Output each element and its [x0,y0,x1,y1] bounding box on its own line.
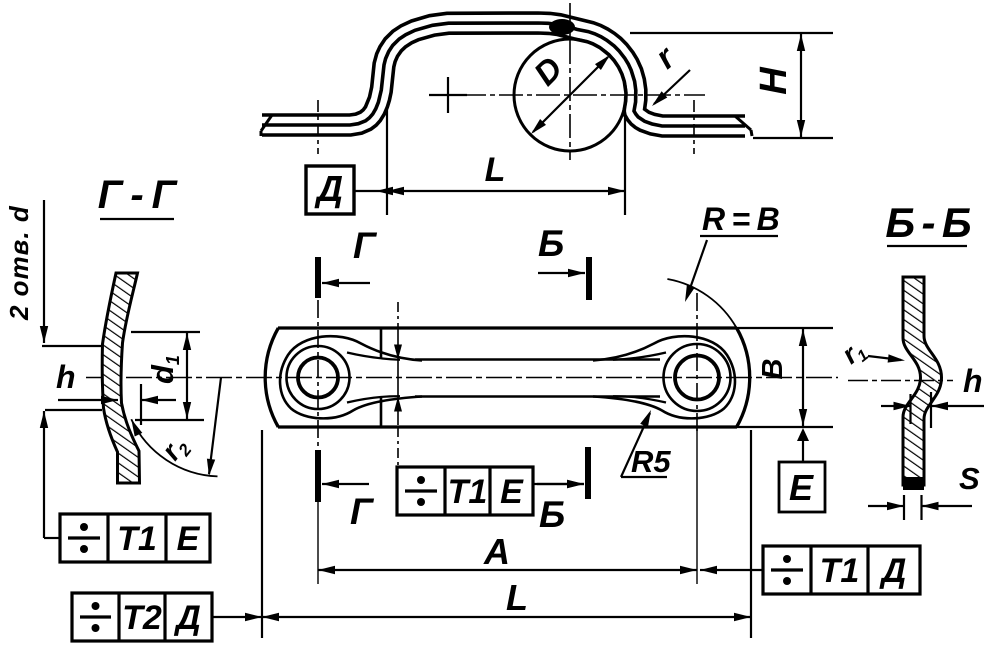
rib lines [415,358,660,361]
dimension A [318,569,697,571]
pipe center lines [569,3,571,160]
right hole vertical axis [696,293,698,432]
svg-text:Г: Г [353,225,378,266]
svg-text:А: А [483,531,510,572]
svg-text:Д: Д [314,168,343,209]
frame T2-D with leader [72,593,212,641]
plan view outline [278,326,737,329]
left eye: hole [298,358,338,398]
left hole vertical axis [317,300,319,450]
section G-G hatched profile [102,273,139,483]
datum box Д (top) [306,166,354,214]
radius r1 leader [868,356,901,360]
left eye: neck fragments [347,353,400,360]
hole axis marks on tabs [317,100,319,154]
section mark G top [315,257,321,298]
svg-text:h: h [963,363,983,399]
right eye: outer swoop [593,336,735,418]
hole d dimension [43,200,45,343]
frame T1-E (plan) [397,467,533,515]
left eye: ring [287,346,350,409]
svg-text:Г - Г: Г - Г [98,173,179,217]
radius r leader [654,70,690,104]
section mark G bottom [315,450,321,502]
left eye: outer swoop [280,336,422,418]
frame T1-D with leader [714,569,763,571]
svg-text:T2: T2 [122,599,162,637]
frame T1-E (G-G) [60,514,210,562]
dimension B (width) [737,327,833,329]
svg-text:h: h [56,359,76,395]
svg-text:L: L [485,151,506,189]
svg-text:Д: Д [173,599,201,637]
datum E triangle and box [797,428,809,441]
svg-text:T1: T1 [117,520,157,558]
radius r2 arc and leader [131,419,217,476]
svg-text:S: S [959,461,980,496]
svg-text:Г: Г [350,491,375,532]
section B-B hatched profile [903,277,942,485]
right eye: neck fragments [613,353,666,360]
svg-text:В: В [757,359,789,380]
svg-text:Е: Е [177,520,201,558]
svg-text:T1: T1 [448,473,488,511]
dimension d1 [131,331,200,333]
right eye: ring [664,344,731,411]
dimension L (plan) [261,430,263,638]
svg-text:Б: Б [539,494,565,535]
svg-text:R = В: R = В [702,201,780,237]
R=B extension arc [667,279,736,328]
strap left end face [261,115,272,131]
svg-text:H: H [753,66,795,95]
svg-text:Б - Б: Б - Б [885,199,971,246]
svg-text:Б: Б [538,223,564,264]
svg-text:Д: Д [879,552,907,590]
section mark B bottom [585,447,591,499]
center cross node [429,94,467,96]
right eye: hole [675,356,719,400]
svg-text:Е: Е [789,467,814,508]
svg-text:L: L [506,577,528,618]
top view: bent strap side elevation, 3 contour lines [262,13,745,116]
strap right end face [735,116,751,130]
dimension H [630,32,833,34]
rib width mini-dimension [380,329,383,359]
ink smudge where strap lines converge (scan artifact) [549,19,575,35]
section mark B top [586,257,592,300]
svg-text:Е: Е [500,473,524,511]
dimension D (diagonal) [533,57,608,132]
B-B axis [848,380,953,382]
svg-text:R5: R5 [631,444,671,479]
svg-text:2 отв. d: 2 отв. d [4,205,34,321]
svg-text:T1: T1 [820,552,860,590]
dimension L (top view) [386,108,388,215]
pipe circle D [514,39,626,151]
main horizontal axis [86,377,838,379]
